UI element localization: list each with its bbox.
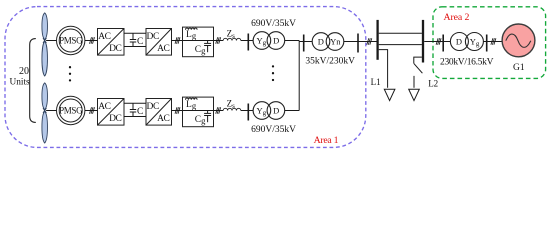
svg-text:L2: L2 (428, 79, 438, 89)
inverter DC/AC converter 2 (146, 99, 172, 126)
DC link negative wire 2 (124, 116, 146, 118)
wire PMSG1 to rectifier (85, 40, 98, 42)
rectifier AC/DC converter 2 (98, 99, 125, 126)
wire transformer T3 to generator G1 (483, 41, 502, 43)
ellipsis between units (left) (69, 66, 71, 82)
three-phase marker at Area 2 input (436, 38, 441, 44)
svg-text:D: D (273, 36, 279, 46)
wire through filter 1 (183, 40, 214, 42)
svg-text:DC: DC (146, 102, 158, 112)
svg-text:DC: DC (109, 44, 121, 54)
generator G1 sine symbol (506, 34, 531, 47)
inductor Lg 1 (186, 28, 198, 30)
inverter DC/AC converter 1 (146, 29, 172, 56)
three-phase marker at generator G1 (491, 38, 496, 44)
DC link positive wire 1 (124, 32, 146, 34)
load L2 arrow (409, 89, 420, 100)
svg-text:AC: AC (98, 32, 110, 42)
svg-text:Area 2: Area 2 (444, 12, 470, 23)
load L2 feeder with switch (414, 57, 423, 88)
three-phase marker at PMSG1 output (90, 37, 95, 43)
three-phase marker before bus B1 (367, 38, 372, 44)
svg-text:20: 20 (19, 66, 29, 77)
svg-text:Units: Units (10, 78, 31, 88)
terminal bar before transformer T3 (442, 35, 444, 52)
impedance Zs 1 (223, 38, 241, 40)
svg-text:Cg: Cg (195, 115, 206, 125)
three-phase marker after filter 2 (216, 107, 221, 113)
wind turbine WT1 blades (42, 13, 48, 76)
wire inverter to filter 2 (172, 110, 183, 112)
ellipsis between units (right) (272, 65, 274, 81)
Area 1 dashed boundary (5, 7, 366, 148)
svg-text:Yn: Yn (330, 37, 341, 47)
terminal bar after transformer T3 (486, 35, 488, 52)
capacitor Cg 2 (204, 111, 211, 123)
svg-text:AC: AC (98, 102, 110, 112)
hub of WT2 (43, 108, 46, 113)
wire Zs 1 to transformer (241, 40, 253, 42)
shaft wire WT2 to PMSG2 (46, 110, 56, 112)
svg-text:690V/35kV: 690V/35kV (251, 19, 296, 29)
svg-text:L1: L1 (371, 77, 381, 87)
transmission line circuit 1 (379, 32, 422, 34)
three-phase marker at inverter 1 output (175, 37, 180, 43)
terminal bar before transformer T1 (247, 34, 249, 51)
wire junction to transformer T2 (299, 41, 312, 43)
busbar B1 (376, 20, 378, 60)
wire inverter to filter 1 (172, 40, 183, 42)
svg-text:230kV/16.5kV: 230kV/16.5kV (440, 57, 494, 67)
svg-text:DC: DC (109, 114, 121, 124)
transmission line circuit 2 (379, 44, 422, 46)
capacitor Cg 1 (204, 41, 211, 53)
svg-text:690V/35kV: 690V/35kV (251, 125, 296, 135)
svg-text:Lg: Lg (186, 30, 197, 40)
wire bus B2 to transformer T3 (424, 41, 450, 43)
transformer T3 D/Yg 230kV/16.5kV (450, 33, 483, 51)
svg-text:D: D (456, 37, 462, 47)
DC link positive wire 2 (124, 102, 146, 104)
svg-text:C: C (137, 37, 143, 47)
capacitor C (DC link) 1 (130, 33, 136, 46)
capacitor C (DC link) 2 (130, 103, 136, 116)
LC filter box 1 (183, 27, 214, 57)
wire transformer T2 to bus B1 (344, 41, 377, 43)
svg-text:Lg: Lg (186, 100, 197, 110)
svg-text:35kV/230kV: 35kV/230kV (305, 56, 355, 66)
svg-text:D: D (273, 106, 279, 116)
wire transformer T1 to collector junction (285, 40, 300, 42)
LC filter box 2 (183, 97, 214, 127)
load L1 feeder (379, 50, 388, 88)
svg-text:Cg: Cg (195, 45, 206, 55)
svg-text:G1: G1 (513, 63, 525, 73)
wire filter 1 to line impedance (214, 40, 224, 42)
generator G1 (502, 24, 535, 57)
wire PMSG2 to rectifier (85, 110, 98, 112)
svg-text:AC: AC (157, 114, 169, 124)
wire transformer T2 to collector junction (285, 110, 300, 112)
load L1 arrow (384, 89, 395, 100)
generator PMSG2 (56, 96, 84, 124)
transformer Yg/D 690V/35kV unit 2 (253, 102, 285, 120)
bracket grouping 20 units (30, 39, 36, 123)
wind turbine WT2 blades (42, 83, 48, 143)
hub of WT1 (43, 38, 46, 43)
Area 2 dashed boundary (433, 7, 546, 79)
svg-text:Area 1: Area 1 (314, 135, 339, 146)
impedance Zs 2 (223, 108, 241, 110)
transformer Yg/D 690V/35kV unit 1 (253, 32, 285, 50)
wire through filter 2 (183, 110, 214, 112)
generator PMSG1 (56, 26, 84, 54)
svg-text:C: C (137, 107, 143, 117)
inductor Lg 2 (186, 98, 198, 100)
collector junction wire (unit 2 riser) (298, 41, 300, 111)
wire filter 2 to line impedance (214, 110, 224, 112)
terminal bar after transformer T2 (357, 34, 359, 53)
DC link negative wire 1 (124, 46, 146, 48)
rectifier AC/DC converter 1 (98, 29, 125, 56)
terminal bar before transformer T2 (247, 104, 249, 121)
three-phase marker at PMSG2 output (90, 107, 95, 113)
svg-text:PMSG: PMSG (59, 36, 83, 46)
svg-text:DC: DC (146, 32, 158, 42)
svg-text:AC: AC (157, 44, 169, 54)
transformer T2 D/Yn 35kV/230kV (312, 33, 344, 51)
shaft wire WT1 to PMSG1 (46, 40, 56, 42)
three-phase marker at inverter 2 output (175, 107, 180, 113)
three-phase marker after filter 1 (216, 37, 221, 43)
busbar B2 (422, 20, 424, 63)
terminal bar before transformer T2 (303, 35, 305, 52)
svg-text:PMSG: PMSG (59, 106, 83, 116)
svg-text:D: D (318, 37, 324, 47)
wire Zs 2 to transformer (241, 110, 253, 112)
